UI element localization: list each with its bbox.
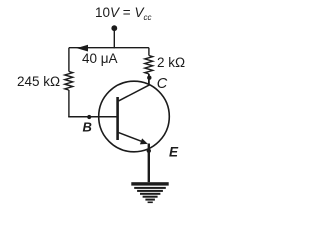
svg-text:B: B — [83, 119, 92, 134]
svg-text:C: C — [157, 76, 168, 92]
svg-text:40 μA: 40 μA — [82, 51, 118, 66]
svg-text:E: E — [169, 145, 179, 160]
svg-text:2 kΩ: 2 kΩ — [157, 55, 185, 70]
svg-text:245 kΩ: 245 kΩ — [17, 74, 60, 89]
svg-text:10V = Vcc: 10V = Vcc — [95, 5, 151, 22]
